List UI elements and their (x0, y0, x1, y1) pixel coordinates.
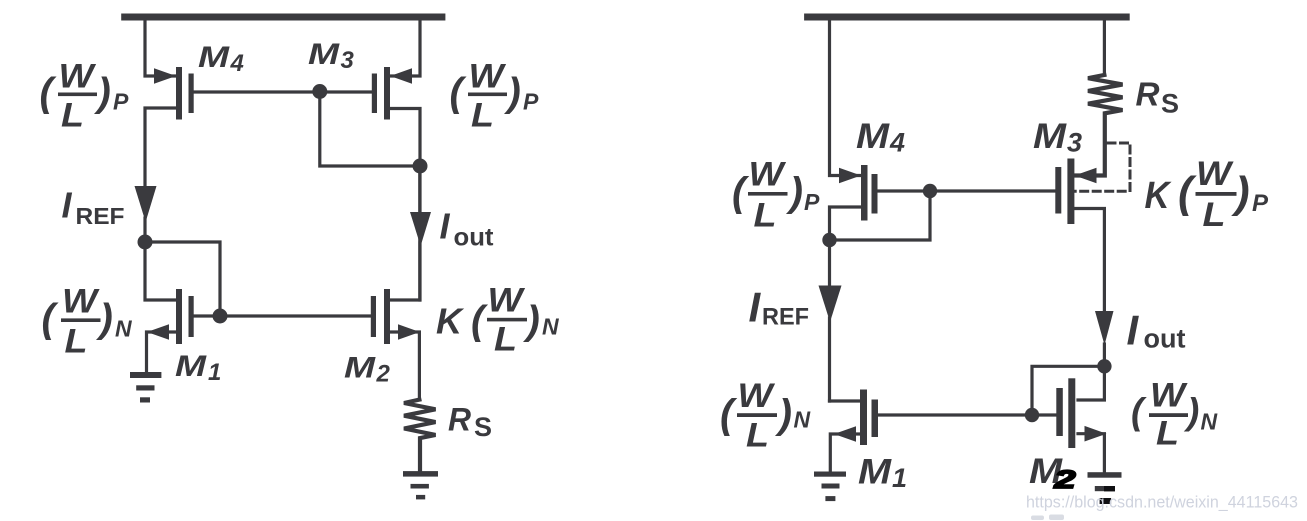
svg-text:(: ( (40, 71, 58, 115)
svg-text:M: M (856, 117, 890, 156)
svg-text:P: P (523, 89, 539, 115)
svg-text:(: ( (450, 71, 468, 115)
svg-text:REF: REF (762, 304, 809, 331)
svg-text:(: ( (42, 297, 60, 341)
svg-text:L: L (494, 321, 517, 359)
svg-text:): ) (786, 169, 804, 215)
svg-text:): ) (1183, 391, 1199, 432)
svg-text:W: W (738, 377, 776, 415)
svg-text:I: I (62, 184, 73, 225)
svg-text:L: L (61, 97, 84, 135)
svg-text:I: I (1127, 307, 1140, 354)
svg-text:4: 4 (889, 128, 905, 158)
svg-text:P: P (1252, 190, 1269, 217)
svg-text:https://blog.csdn.net/weixin_4: https://blog.csdn.net/weixin_44115643 (1026, 494, 1298, 512)
svg-text:(: ( (720, 391, 738, 437)
svg-text:(: ( (732, 169, 750, 215)
svg-text:L: L (754, 197, 777, 235)
svg-text:M: M (344, 352, 376, 385)
svg-text:M: M (1033, 117, 1067, 156)
svg-text:I: I (440, 205, 451, 246)
svg-text:S: S (474, 412, 492, 442)
svg-text:3: 3 (341, 47, 355, 74)
svg-text:W: W (488, 281, 526, 319)
svg-text:L: L (471, 97, 494, 135)
svg-text:W: W (1196, 155, 1234, 193)
svg-text:M: M (858, 453, 892, 492)
svg-text:R: R (448, 402, 471, 438)
svg-text:N: N (794, 407, 811, 433)
svg-text:1: 1 (208, 359, 221, 386)
svg-text:W: W (749, 156, 787, 194)
svg-text:L: L (1203, 196, 1226, 234)
svg-text:K: K (436, 301, 465, 342)
svg-text:(: ( (1178, 168, 1197, 217)
svg-text:W: W (1150, 377, 1188, 415)
svg-text:R: R (1136, 76, 1160, 113)
svg-text:3: 3 (1067, 127, 1082, 157)
svg-text:2: 2 (376, 361, 391, 388)
svg-text:K: K (1145, 175, 1172, 217)
svg-text:W: W (469, 58, 507, 96)
svg-text:N: N (115, 316, 132, 342)
svg-text:L: L (746, 417, 769, 455)
svg-text:M: M (198, 41, 230, 74)
svg-text:(: ( (471, 299, 489, 343)
svg-text:4: 4 (230, 50, 244, 77)
svg-text:W: W (62, 283, 100, 321)
svg-text:S: S (1161, 89, 1179, 119)
svg-text:N: N (1201, 409, 1218, 435)
svg-text:I: I (749, 284, 762, 331)
svg-text:M: M (175, 350, 207, 383)
svg-text:P: P (804, 189, 820, 215)
svg-text:): ) (775, 391, 793, 437)
svg-text:out: out (1144, 324, 1186, 354)
svg-text:out: out (454, 224, 495, 252)
svg-text:L: L (65, 323, 88, 361)
svg-text:M: M (308, 38, 340, 71)
svg-text:L: L (1156, 415, 1179, 453)
svg-text:REF: REF (76, 203, 125, 229)
svg-text:(: ( (1131, 391, 1147, 432)
svg-text:P: P (113, 89, 129, 115)
svg-text:2: 2 (1053, 466, 1076, 494)
svg-text:N: N (542, 314, 559, 340)
svg-text:W: W (59, 58, 97, 96)
svg-text:1: 1 (892, 463, 907, 493)
